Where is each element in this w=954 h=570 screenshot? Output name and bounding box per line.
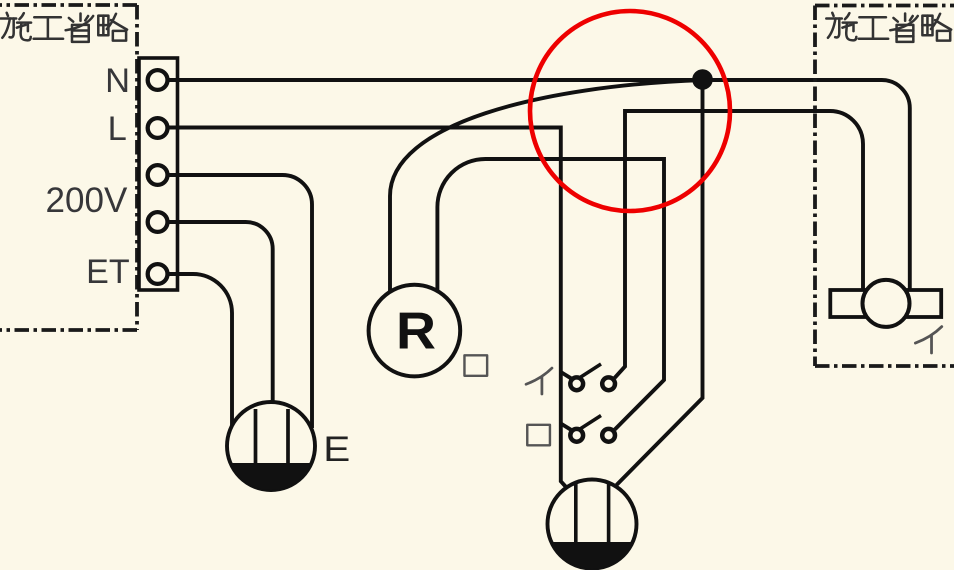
switch イ <box>570 364 615 390</box>
label イ (right lamp) <box>915 327 941 353</box>
wire 200V-b to lamp E middle <box>168 222 273 403</box>
right construction-omitted box (dash-dot border) <box>815 6 954 367</box>
svg-text:L: L <box>108 110 127 148</box>
terminal L <box>148 118 168 138</box>
svg-text:E: E <box>323 430 350 469</box>
wire ET to lamp E left <box>168 274 233 428</box>
wire N: terminal N to right box lamp <box>168 80 910 291</box>
label ロ (switch) <box>527 425 550 446</box>
svg-text:200V: 200V <box>46 181 128 220</box>
wire 200V-a to lamp E right <box>168 175 313 428</box>
terminal N <box>148 70 168 90</box>
terminal 200V-b <box>148 212 168 232</box>
heater R <box>369 285 461 377</box>
terminal 200V-a <box>148 165 168 185</box>
left construction-omitted box (dash-dot border) <box>0 5 137 330</box>
wire stub: L vertical to switch ロ left contact <box>561 424 571 430</box>
label 施工省略 (right) <box>826 13 951 42</box>
wire R left to junction on N <box>390 80 703 292</box>
wire R right to switch ロ <box>437 159 664 430</box>
svg-text:R: R <box>396 303 436 361</box>
red highlight circle <box>530 11 730 211</box>
svg-text:ET: ET <box>86 253 129 291</box>
junction dot <box>692 69 713 90</box>
wire switch イ to right box lamp <box>615 111 863 378</box>
label イ (switch) <box>526 368 552 394</box>
svg-text:N: N <box>105 62 130 100</box>
wire stub: L vertical to switch イ left contact <box>561 372 571 378</box>
wire junction to bottom lamp <box>617 80 703 485</box>
terminal ET <box>148 264 168 284</box>
wire L: terminal L down to switches and bottom lamp <box>168 128 567 488</box>
label ロ (for R) <box>464 355 487 376</box>
right box lamp (rect + circle) <box>830 290 941 317</box>
lamp E (ceiling rosette) <box>227 402 315 490</box>
switch ロ <box>570 416 615 442</box>
label 施工省略 (left) <box>1 13 127 42</box>
terminal block <box>139 58 178 290</box>
bottom lamp (ceiling rosette) <box>548 480 637 569</box>
